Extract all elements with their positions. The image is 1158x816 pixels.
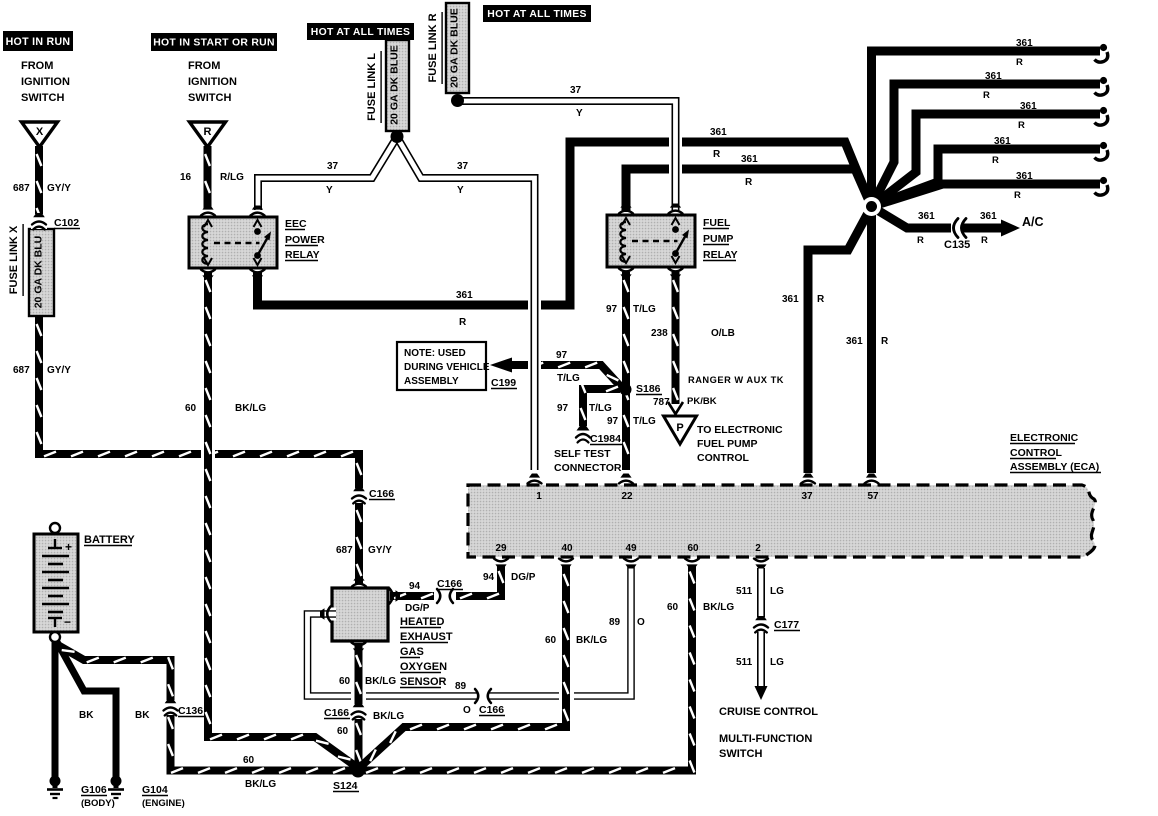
svg-text:GAS: GAS [400,646,424,658]
svg-text:ELECTRONIC: ELECTRONIC [1010,432,1079,444]
svg-text:SENSOR: SENSOR [400,676,447,688]
svg-text:ASSEMBLY: ASSEMBLY [404,376,459,387]
svg-text:G104: G104 [142,784,168,796]
svg-text:687: 687 [13,365,30,376]
svg-text:97: 97 [557,403,569,414]
svg-text:BATTERY: BATTERY [84,534,135,546]
wire 361 R S125 up to right #1 [872,51,1101,207]
svg-text:29: 29 [495,543,507,554]
svg-text:20 GA DK BLUE: 20 GA DK BLUE [449,8,461,88]
svg-text:T/LG: T/LG [633,304,656,315]
wire 238 O/LB 787 PK/BK fuel pump relay down to P [672,272,680,404]
wire 60 BK/LG HEGO down via C166 to S124 [351,688,366,704]
triangle X from ignition switch [22,122,58,147]
svg-text:BK/LG: BK/LG [235,403,266,414]
connector C177 [753,617,769,632]
fuel pump relay internals [620,222,626,262]
fuse link X body 20 GA DK BLU [29,229,54,316]
fuse link R body 20 GA DK BLUE [446,3,469,93]
wire 60 BK/LG ECA pin 40 down to S124 [559,688,574,704]
svg-text:S186: S186 [636,383,661,395]
svg-text:R: R [992,155,999,166]
svg-text:O/LB: O/LB [711,328,735,339]
node: fuse link R output dot [451,94,464,107]
svg-text:LG: LG [770,586,784,597]
connector C166 (HEGO bottom) [351,704,367,719]
fuel pump relay pin connectors [620,204,631,208]
svg-text:RELAY: RELAY [285,249,320,261]
svg-text:CRUISE CONTROL: CRUISE CONTROL [719,706,818,718]
svg-text:40: 40 [561,543,573,554]
svg-text:FUSE LINK L: FUSE LINK L [366,53,378,121]
wire 361 R S125 down-left to ECA pin 37 [808,207,872,474]
svg-text:94: 94 [483,572,495,583]
svg-text:BK/LG: BK/LG [373,711,404,722]
svg-text:T/LG: T/LG [557,373,580,384]
battery B1 box [34,534,78,632]
svg-text:X: X [36,126,44,138]
svg-text:2: 2 [755,543,761,554]
svg-text:60: 60 [667,602,679,613]
node S124 splice [351,764,365,778]
connector C166 (687 wire) [351,488,367,503]
svg-text:CONTROL: CONTROL [1010,447,1062,459]
svg-text:GY/Y: GY/Y [368,545,392,556]
svg-text:BK/LG: BK/LG [576,635,607,646]
svg-text:R: R [817,294,825,305]
svg-text:LG: LG [770,657,784,668]
svg-text:R: R [745,177,753,188]
wire BK battery to G104 [57,642,116,778]
svg-text:C166: C166 [479,704,504,716]
wire 687 GY/Y fuse link X down and right to C166 to HEGO [39,316,359,496]
svg-text:97: 97 [606,304,618,315]
relay K1 EEC power relay box [189,217,277,268]
svg-text:HOT IN START OR RUN: HOT IN START OR RUN [153,38,275,49]
svg-text:787: 787 [653,397,670,408]
svg-text:T/LG: T/LG [589,403,612,414]
svg-text:89: 89 [609,617,621,628]
wire 361 R S125 down to ECA pin 57 [867,207,876,474]
banner HOT AT ALL TIMES (right) [483,5,591,22]
fuse link L body 20 GA DK BLUE [386,40,409,131]
svg-text:TO ELECTRONIC: TO ELECTRONIC [697,424,783,436]
svg-text:R: R [983,90,990,101]
connector C136 [163,700,179,715]
svg-text:EXHAUST: EXHAUST [400,631,453,643]
connector C166 (94 DG/P wire) [440,588,451,604]
wire 37 Y fuse link L to ECA pin 1 (hollow) [397,137,535,470]
svg-text:FROM: FROM [188,60,220,72]
svg-text:60: 60 [185,403,197,414]
svg-text:238: 238 [651,328,668,339]
svg-text:361: 361 [1016,38,1033,49]
svg-text:60: 60 [545,635,557,646]
svg-text:R/LG: R/LG [220,172,244,183]
HEGO pin connectors [353,577,364,581]
svg-text:37: 37 [570,85,582,96]
svg-text:361: 361 [710,127,727,138]
svg-text:361: 361 [985,71,1002,82]
svg-text:GY/Y: GY/Y [47,365,71,376]
svg-text:97: 97 [607,416,619,427]
svg-text:IGNITION: IGNITION [188,76,237,88]
svg-text:361: 361 [456,290,473,301]
HEGO sensor box [332,588,388,641]
svg-text:C177: C177 [774,619,799,631]
wire 97 T/LG fuel pump relay to S186 to ECA pin 22 [622,272,630,470]
svg-text:Y: Y [457,185,464,196]
svg-text:SWITCH: SWITCH [188,92,231,104]
svg-text:16: 16 [180,172,192,183]
svg-text:BK/LG: BK/LG [365,676,396,687]
svg-text:C1984: C1984 [590,433,621,445]
svg-text:FUSE LINK R: FUSE LINK R [427,13,439,82]
svg-text:(BODY): (BODY) [81,798,115,809]
connector C135 [951,219,962,237]
wire 361 R from EEC power relay to S125 [258,142,872,305]
svg-text:POWER: POWER [285,234,325,246]
svg-text:57: 57 [867,491,879,502]
svg-text:361: 361 [846,336,863,347]
svg-text:511: 511 [736,586,753,597]
wire 361 R S125 to right #5 [872,184,1101,207]
wire 361 R S125 to A/C via C135 [872,207,1005,229]
arrow + triangle P to electronic fuel pump control [668,402,683,414]
svg-text:60: 60 [337,726,349,737]
svg-text:SELF TEST: SELF TEST [554,448,611,460]
node: fuse link L output dot [391,130,404,143]
svg-text:361: 361 [1020,101,1037,112]
svg-text:37: 37 [457,161,469,172]
svg-text:C136: C136 [178,705,203,717]
ground G106 (BODY) [50,776,61,787]
NOTE box: used during vehicle assembly [397,342,486,390]
svg-text:687: 687 [13,183,30,194]
wire 60 BK/LG battery branch via C136 to S124 run [56,644,171,701]
svg-text:(ENGINE): (ENGINE) [142,798,185,809]
svg-text:A/C: A/C [1022,215,1044,229]
wire 687 GY/Y triangle X to C102 [35,146,43,222]
svg-text:BK: BK [135,710,150,721]
wire 37 Y fuse link L to EEC relay (hollow) [258,137,397,210]
svg-text:+: + [65,540,72,554]
triangle R from ignition switch [190,122,226,147]
svg-text:C199: C199 [491,377,516,389]
svg-text:RELAY: RELAY [703,249,738,261]
svg-text:IGNITION: IGNITION [21,76,70,88]
svg-text:OXYGEN: OXYGEN [400,661,447,673]
svg-text:S124: S124 [333,780,358,792]
svg-text:HOT IN RUN: HOT IN RUN [6,36,71,48]
wire 89 O HEGO shield loop to C166 to ECA pin 49 (hollow) [308,565,632,696]
svg-text:22: 22 [621,491,633,502]
svg-text:361: 361 [994,136,1011,147]
svg-text:ASSEMBLY (ECA): ASSEMBLY (ECA) [1010,461,1099,473]
wire 361 R S125 to right #3 [872,114,1101,207]
svg-text:SWITCH: SWITCH [719,748,762,760]
svg-text:DURING VEHICLE: DURING VEHICLE [404,362,490,373]
svg-text:FUEL PUMP: FUEL PUMP [697,438,757,450]
svg-text:361: 361 [918,211,935,222]
svg-text:CONNECTOR: CONNECTOR [554,462,622,474]
svg-text:NOTE: USED: NOTE: USED [404,348,466,359]
banner HOT AT ALL TIMES (left) [307,23,414,40]
svg-text:R: R [459,317,467,328]
svg-text:361: 361 [782,294,799,305]
wire 361 R from fuel pump relay to S125 [626,169,872,212]
node S186 splice [620,384,632,396]
svg-text:O: O [637,617,645,628]
svg-text:BK/LG: BK/LG [245,779,276,790]
wire 37 Y fuse link R to fuel pump relay (hollow) [458,101,676,210]
svg-text:SWITCH: SWITCH [21,92,64,104]
svg-text:R: R [981,235,988,246]
connector C1984 end [577,426,590,431]
svg-text:BK: BK [79,710,94,721]
svg-text:C166: C166 [324,707,349,719]
svg-text:C102: C102 [54,217,79,229]
wire 361 R S125 to right #4 [872,149,1101,207]
EEC relay pin connectors [202,206,213,210]
svg-text:PK/BK: PK/BK [687,396,717,407]
svg-text:EEC: EEC [285,218,307,230]
svg-text:C135: C135 [944,239,970,251]
wire 60 BK/LG S124 run right to ECA pin 60 [358,566,692,771]
svg-text:687: 687 [336,545,353,556]
svg-text:97: 97 [556,350,568,361]
wire BK battery to G106 [52,640,59,778]
wire 60 BK/LG EEC relay down across to S124 [201,444,215,462]
node S125 splice ring [862,197,881,216]
wire 97 T/LG S186 branch to C1984 self test connector [583,389,620,426]
svg-text:O: O [463,705,471,716]
svg-text:R: R [1016,57,1023,68]
svg-text:R: R [713,149,721,160]
svg-text:HOT AT ALL TIMES: HOT AT ALL TIMES [487,9,586,20]
svg-text:DG/P: DG/P [405,603,430,614]
svg-text:FROM: FROM [21,60,53,72]
ground G104 (ENGINE) [111,776,122,787]
svg-text:FUSE LINK X: FUSE LINK X [8,225,20,294]
svg-text:89: 89 [455,681,467,692]
svg-text:CONTROL: CONTROL [697,452,749,464]
relay K2 fuel pump relay box [607,215,695,267]
svg-text:361: 361 [980,211,997,222]
svg-text:R: R [204,126,212,138]
connector C166 (89 O wire) [478,688,489,704]
svg-text:FUEL: FUEL [703,217,731,229]
hook arrow terminals on right 361 wires [1100,44,1107,51]
wire 97 T/LG S186 branch to C199 note arrow [510,365,622,388]
banner HOT IN START OR RUN [151,33,277,51]
svg-text:PUMP: PUMP [703,233,733,245]
svg-text:1: 1 [536,491,542,502]
ECA electronic control assembly box [468,485,1095,557]
svg-text:Y: Y [576,108,583,119]
svg-text:R: R [1014,190,1021,201]
svg-text:BK/LG: BK/LG [703,602,734,613]
svg-text:HOT AT ALL TIMES: HOT AT ALL TIMES [311,27,410,38]
svg-text:49: 49 [625,543,637,554]
svg-text:60: 60 [339,676,351,687]
svg-text:MULTI-FUNCTION: MULTI-FUNCTION [719,733,812,745]
EEC relay internals [202,224,208,264]
svg-text:GY/Y: GY/Y [47,183,71,194]
svg-text:T/LG: T/LG [633,416,656,427]
svg-text:60: 60 [687,543,699,554]
connector C102 [31,214,47,229]
svg-text:Y: Y [326,185,333,196]
svg-text:94: 94 [409,581,421,592]
svg-text:511: 511 [736,657,753,668]
svg-text:20 GA DK BLUE: 20 GA DK BLUE [389,45,401,125]
wire 511 LG ECA pin 2 to C177 to cruise control (hollow) [757,568,765,688]
svg-text:361: 361 [1016,171,1033,182]
svg-text:R: R [1018,120,1025,131]
wire 16 R/LG triangle R to EEC relay [204,146,212,208]
svg-text:37: 37 [801,491,813,502]
svg-text:361: 361 [741,154,758,165]
svg-text:RANGER W AUX TK: RANGER W AUX TK [688,375,784,385]
svg-text:C166: C166 [437,578,462,590]
svg-text:DG/P: DG/P [511,572,536,583]
svg-text:37: 37 [327,161,339,172]
svg-text:HEATED: HEATED [400,616,444,628]
ECA pin connectors top: 1, 22, 37, 57 [529,474,540,478]
banner HOT IN RUN [3,31,73,51]
svg-text:20 GA DK BLU: 20 GA DK BLU [33,236,45,309]
svg-text:−: − [64,615,71,629]
svg-text:P: P [676,422,683,434]
battery internals [50,523,60,533]
svg-text:R: R [917,235,924,246]
ECA pin connectors bottom: 29, 40, 49, 60, 2 [495,564,506,568]
wire 94 DG/P HEGO to C166 to ECA pin 29 [390,592,434,600]
svg-text:R: R [881,336,889,347]
svg-text:C166: C166 [369,488,394,500]
wire 361 R S125 to right #2 [872,84,1101,207]
svg-text:G106: G106 [81,784,107,796]
svg-text:60: 60 [243,755,255,766]
